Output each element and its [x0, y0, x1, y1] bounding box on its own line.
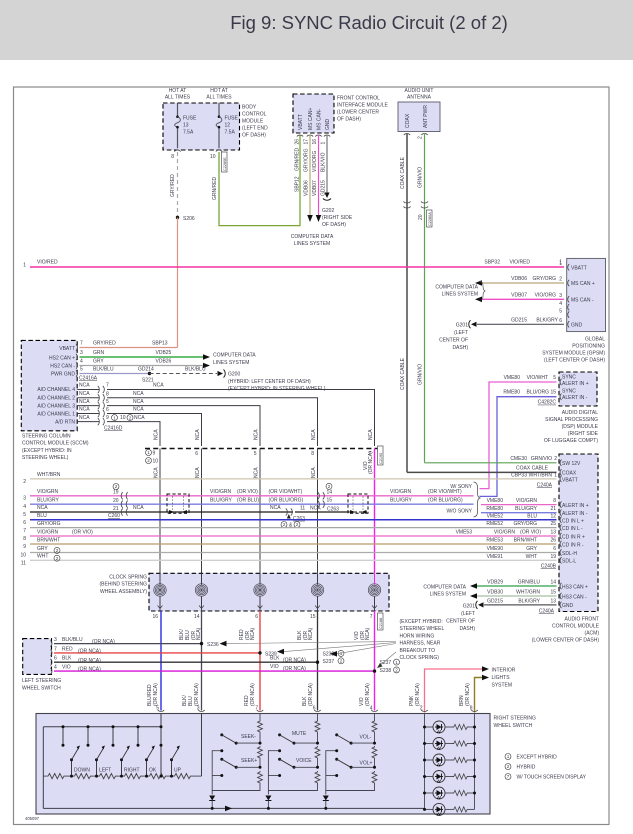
- A/D channel 3 NCA wire: [77, 399, 260, 446]
- svg-text:S238: S238: [380, 668, 392, 674]
- NCA vertical labels below connector line: [154, 467, 318, 478]
- svg-text:AUDIO DIGITAL: AUDIO DIGITAL: [562, 410, 599, 416]
- wire GD215 BLK/VIO from GND down to G202: [321, 135, 328, 196]
- svg-text:VOL-: VOL-: [360, 735, 372, 741]
- svg-text:15: 15: [327, 498, 333, 504]
- svg-text:VOL+: VOL+: [360, 761, 373, 767]
- node 5 + wire NCA black: [23, 505, 368, 522]
- svg-text:BLU/ORG: BLU/ORG: [526, 390, 549, 396]
- wire RME80 BLU/GRY to ALERT IN-: [481, 506, 557, 513]
- svg-text:RME80: RME80: [503, 390, 520, 396]
- svg-text:1: 1: [321, 142, 327, 145]
- svg-text:VBATT: VBATT: [59, 346, 75, 352]
- svg-text:VIO: VIO: [62, 665, 71, 671]
- svg-text:MS CAN-: MS CAN-: [317, 109, 323, 130]
- svg-text:NCA: NCA: [311, 429, 317, 440]
- svg-text:21: 21: [113, 506, 119, 512]
- lamp row 4: [423, 771, 476, 783]
- coil 4: [311, 584, 323, 596]
- svg-text:6: 6: [23, 520, 26, 526]
- svg-text:ANT PWR: ANT PWR: [423, 105, 429, 128]
- svg-text:3: 3: [23, 496, 26, 502]
- svg-text:VDB07: VDB07: [511, 292, 527, 298]
- svg-text:ANTENNA: ANTENNA: [407, 95, 432, 101]
- svg-text:6: 6: [559, 318, 562, 324]
- svg-text:INTERIOR: INTERIOR: [492, 668, 516, 674]
- svg-text:11: 11: [300, 506, 305, 512]
- svg-text:15: 15: [310, 614, 316, 620]
- svg-text:VIO/GRN: VIO/GRN: [494, 530, 516, 536]
- svg-text:(OR NCA): (OR NCA): [368, 451, 374, 474]
- coil 1: [154, 584, 166, 596]
- svg-text:9: 9: [153, 451, 156, 457]
- svg-text:A/D CHANNEL 4: A/D CHANNEL 4: [37, 387, 75, 393]
- lamp row 3: [423, 754, 476, 766]
- svg-text:GRN/VIO: GRN/VIO: [418, 364, 424, 385]
- svg-text:(OR NCA): (OR NCA): [78, 667, 101, 673]
- svg-text:C4282C: C4282C: [538, 400, 557, 406]
- wire GRY/RED from S206 down to SCCM VBATT row: [177, 218, 179, 346]
- svg-text:19: 19: [113, 489, 119, 495]
- A/D channel 4 NCA wire: [77, 383, 374, 447]
- svg-text:NCA: NCA: [133, 407, 144, 413]
- svg-text:COMPUTER DATA: COMPUTER DATA: [435, 285, 478, 291]
- svg-text:DASH): DASH): [459, 626, 475, 632]
- svg-text:26: 26: [550, 538, 556, 544]
- svg-text:STEERING WHEEL): STEERING WHEEL): [22, 455, 69, 461]
- A/D RTN NCA wire: [77, 415, 160, 446]
- svg-text:VIO/ORG: VIO/ORG: [312, 150, 318, 172]
- wire BLK below clock spring pin15: [297, 611, 321, 712]
- svg-text:WHEEL SWITCH: WHEEL SWITCH: [22, 686, 61, 692]
- svg-text:WHEEL SWITCH: WHEEL SWITCH: [494, 723, 533, 729]
- node 7 + wire GRY/ORG to ACM CD IN L-: [23, 521, 556, 534]
- svg-text:SBP13: SBP13: [152, 341, 168, 347]
- interior lights system label: [492, 668, 516, 689]
- svg-text:4: 4: [54, 665, 57, 671]
- switch labels: [74, 767, 182, 773]
- svg-text:7: 7: [80, 341, 83, 347]
- svg-text:SYNC: SYNC: [562, 375, 576, 381]
- svg-text:(OR NCA): (OR NCA): [308, 683, 314, 706]
- svg-text:GLOBAL: GLOBAL: [585, 337, 605, 343]
- svg-text:GRN/RED: GRN/RED: [295, 148, 301, 171]
- svg-text:NCA: NCA: [79, 391, 90, 397]
- svg-text:SDL-L: SDL-L: [562, 559, 576, 565]
- svg-text:LINES SYSTEM: LINES SYSTEM: [294, 241, 330, 247]
- svg-text:OF LUGGAGE COMPT): OF LUGGAGE COMPT): [544, 438, 599, 444]
- svg-text:SYSTEM MODULE (GPSM): SYSTEM MODULE (GPSM): [542, 351, 605, 357]
- svg-text:2: 2: [554, 456, 557, 462]
- svg-text:SBP32: SBP32: [484, 260, 500, 266]
- svg-text:13: 13: [550, 598, 556, 604]
- svg-text:HS2 CAN -: HS2 CAN -: [50, 364, 75, 370]
- resistor ladder rail: [43, 774, 201, 779]
- svg-text:VIO/RED: VIO/RED: [37, 260, 58, 266]
- svg-text:6: 6: [195, 451, 198, 457]
- svg-text:VME90: VME90: [487, 546, 504, 552]
- MUTE group: [265, 714, 320, 810]
- svg-text:FRONT CONTROL: FRONT CONTROL: [337, 96, 380, 102]
- wire RME80 BLU/ORG from DSP alert in-: [480, 390, 557, 497]
- steering wheel connector dashed line: [145, 448, 378, 450]
- svg-text:NCA): NCA): [196, 627, 202, 640]
- svg-text:NCA): NCA): [365, 627, 371, 640]
- svg-text:VDB26: VDB26: [156, 359, 172, 365]
- svg-text:15: 15: [550, 589, 556, 595]
- svg-text:NCA): NCA): [250, 627, 256, 640]
- svg-text:NCA: NCA: [254, 467, 260, 478]
- svg-text:(OR NCA): (OR NCA): [92, 639, 115, 645]
- svg-text:NCA: NCA: [133, 391, 144, 397]
- svg-text:8: 8: [553, 498, 556, 504]
- svg-text:C240A: C240A: [537, 483, 553, 489]
- LED lamp column: [423, 714, 476, 816]
- svg-text:SYSTEM: SYSTEM: [492, 683, 513, 689]
- svg-text:CME30: CME30: [510, 456, 527, 462]
- SCCM box: [21, 340, 77, 430]
- wire VDB06 GRY/ORG from MS CAN+ down to arrow: [304, 135, 313, 222]
- svg-text:6: 6: [54, 656, 57, 662]
- right steering wheel switch box: [36, 714, 536, 815]
- svg-text:BLK: BLK: [270, 655, 280, 661]
- svg-text:GD214: GD214: [138, 367, 154, 373]
- wire GRN/RED from fuse 12: down, right, up to FCIM VBATT: [219, 135, 300, 226]
- wire BLK/BLU (OR NCA) from left switch pin3 to S236: [54, 637, 202, 645]
- svg-text:LEFT: LEFT: [99, 767, 111, 773]
- splice S237 (blk): [316, 644, 396, 665]
- labels VME53 VIO/GRN row8: [456, 530, 557, 536]
- svg-text:VME80: VME80: [504, 375, 521, 381]
- cursor pad switches DOWN LEFT RIGHT OK UP: [63, 727, 172, 776]
- svg-text:AUDIO UNIT: AUDIO UNIT: [405, 88, 434, 94]
- svg-text:(OR NCA): (OR NCA): [283, 666, 306, 672]
- svg-text:BLU/GRY: BLU/GRY: [210, 497, 233, 503]
- option connector dashed box left: [167, 494, 189, 514]
- svg-text:5: 5: [559, 308, 562, 314]
- wire SBP12 GRN/RED labels: [295, 139, 301, 192]
- svg-text:G200: G200: [228, 372, 240, 378]
- svg-text:7.5A: 7.5A: [183, 130, 194, 136]
- svg-text:6: 6: [553, 546, 556, 552]
- svg-text:AUDIO FRONT: AUDIO FRONT: [565, 617, 599, 623]
- svg-text:NCA: NCA: [368, 429, 374, 440]
- svg-text:14: 14: [550, 579, 556, 585]
- node 10 + wire GRY to ACM SDL-H: [20, 546, 556, 559]
- splice S239: [258, 643, 396, 658]
- svg-text:DOWN: DOWN: [74, 767, 90, 773]
- svg-text:STEERING WHEEL: STEERING WHEEL: [400, 626, 445, 632]
- coil 2: [195, 584, 207, 596]
- svg-text:SEEK+: SEEK+: [241, 758, 257, 764]
- svg-text:ALERT IN -: ALERT IN -: [562, 511, 588, 517]
- wire VME80 VIO/WHT from DSP alert in+: [480, 375, 557, 489]
- svg-text:VME52: VME52: [487, 513, 504, 519]
- svg-text:GRY/ORG: GRY/ORG: [37, 521, 61, 527]
- wire VIO below clock spring pin7: [354, 611, 383, 712]
- brace merge for sony option: [446, 482, 480, 517]
- svg-text:VIO/ORG: VIO/ORG: [535, 292, 557, 298]
- wire CBP33 WHT/BRN row2 end labels: [511, 473, 557, 489]
- svg-text:BRN/WHT: BRN/WHT: [514, 538, 537, 544]
- svg-text:RME53: RME53: [486, 538, 503, 544]
- svg-text:S237: S237: [323, 659, 335, 665]
- SCCM caption: [22, 434, 89, 462]
- svg-text:GRY: GRY: [526, 546, 537, 552]
- body control module box: [163, 103, 268, 150]
- svg-text:RED: RED: [62, 646, 73, 652]
- svg-text:(OR NCA): (OR NCA): [194, 683, 200, 706]
- svg-text:20: 20: [418, 214, 424, 220]
- labels VME90 GRY row10: [487, 546, 557, 552]
- svg-text:10: 10: [153, 459, 159, 465]
- svg-text:EXCEPT HYBRID: EXCEPT HYBRID: [517, 755, 558, 761]
- svg-text:BLK/BLU: BLK/BLU: [62, 637, 83, 643]
- svg-text:LINES SYSTEM: LINES SYSTEM: [213, 360, 249, 366]
- wire GRY/RED dashed from fuse 13 to S206: [177, 152, 179, 218]
- svg-text:GRN/BLU: GRN/BLU: [518, 579, 541, 585]
- svg-text:NCA: NCA: [153, 383, 164, 389]
- seek resistor chain: [212, 714, 262, 795]
- wire VIO (OR NCA) vertical to clock spring: [374, 449, 376, 574]
- harness callout caption: [400, 619, 445, 661]
- computer data lines label (ACM): [423, 585, 466, 598]
- svg-text:BLU/GRY: BLU/GRY: [390, 497, 413, 503]
- svg-text:Fig 9: SYNC Radio Circuit (2 o: Fig 9: SYNC Radio Circuit (2 of 2): [230, 12, 508, 33]
- svg-text:HARNESS, NEAR: HARNESS, NEAR: [400, 641, 441, 647]
- hot at all times label 2: [206, 88, 232, 101]
- svg-text:1: 1: [559, 261, 562, 267]
- svg-text:(OR VIO): (OR VIO): [520, 530, 541, 536]
- seek common bus: [212, 751, 222, 791]
- svg-text:(OR NCA): (OR NCA): [283, 657, 306, 663]
- wire GD215 BLK/GRY to ACM GND with ground G201: [476, 598, 557, 614]
- coil stems: [160, 573, 375, 611]
- svg-text:(OR BLU/ORG): (OR BLU/ORG): [428, 497, 463, 503]
- svg-text:12: 12: [225, 123, 231, 129]
- svg-text:2: 2: [559, 277, 562, 283]
- svg-text:GRN/VIO: GRN/VIO: [418, 167, 424, 188]
- svg-text:BLU: BLU: [527, 513, 537, 519]
- svg-text:(RIGHT SIDE: (RIGHT SIDE: [568, 431, 599, 437]
- svg-text:A/D CHANNEL 3: A/D CHANNEL 3: [37, 404, 75, 410]
- svg-text:VME53: VME53: [456, 530, 473, 536]
- svg-text:GND: GND: [562, 603, 574, 609]
- lamp row 6: [423, 803, 475, 815]
- svg-text:CONTROL MODULE: CONTROL MODULE: [552, 624, 600, 630]
- VOL group: [323, 714, 377, 810]
- svg-text:(LEFT END: (LEFT END: [242, 126, 268, 132]
- svg-text:NCA: NCA: [37, 505, 48, 511]
- svg-text:(EXCEPT HYBRID:: (EXCEPT HYBRID:: [400, 619, 443, 625]
- svg-text:INTERFACE MODULE: INTERFACE MODULE: [337, 103, 389, 109]
- svg-text:WHT/BRN: WHT/BRN: [529, 473, 553, 479]
- svg-text:NCA: NCA: [79, 415, 90, 421]
- labels RME53 BRN/WHT row9: [486, 538, 556, 544]
- svg-text:C2188: C2188: [379, 618, 383, 629]
- svg-text:WHT: WHT: [526, 554, 537, 560]
- svg-text:CD IN R +: CD IN R +: [562, 534, 585, 540]
- svg-text:HS3 CAN -: HS3 CAN -: [562, 594, 587, 600]
- svg-text:BRN/WHT: BRN/WHT: [37, 537, 60, 543]
- svg-text:C2190: C2190: [379, 453, 383, 464]
- svg-text:COAX: COAX: [405, 113, 411, 128]
- svg-text:NCA: NCA: [311, 467, 317, 478]
- svg-text:5: 5: [106, 399, 109, 405]
- svg-text:MS CAN +: MS CAN +: [571, 281, 595, 287]
- wire VDB30 WHT/GRN to HS3 CAN-: [470, 589, 557, 598]
- top rail: [43, 726, 161, 728]
- wire GRY/RED SBP13 from SCCM VBATT to S206 riser: [80, 341, 178, 348]
- svg-text:HOT AT: HOT AT: [210, 88, 228, 94]
- wire verticals from connector down to clock spring: [160, 449, 318, 574]
- svg-text:GRY/ORG: GRY/ORG: [513, 521, 537, 527]
- wire PNK (OR NCA) to interior lights: [409, 666, 489, 712]
- svg-text:BLK: BLK: [62, 656, 72, 662]
- labels RME52 GRY/ORG row7: [486, 521, 556, 527]
- lamp row 2: [423, 738, 476, 750]
- svg-text:COMPUTER DATA: COMPUTER DATA: [291, 234, 334, 240]
- blue pin5 vertical inside box: [160, 714, 162, 777]
- wire GRY VDB26 to computer data arrow: [80, 359, 211, 369]
- labels VME91 WHT row11: [487, 554, 557, 570]
- svg-text:(BEHIND STEERING: (BEHIND STEERING: [99, 582, 147, 588]
- ground G200: [218, 370, 326, 393]
- svg-text:C2280E: C2280E: [223, 157, 227, 171]
- svg-text:VDB25: VDB25: [156, 350, 172, 356]
- svg-text:MS CAN -: MS CAN -: [571, 297, 594, 303]
- svg-text:OF DASH): OF DASH): [242, 133, 266, 139]
- svg-text:4: 4: [23, 504, 26, 510]
- lamp row 5: [423, 787, 476, 799]
- svg-text:(OR BLU/ORG): (OR BLU/ORG): [269, 497, 304, 503]
- svg-text:WHEEL ASSEMBLY): WHEEL ASSEMBLY): [100, 589, 147, 595]
- svg-text:NCA: NCA: [154, 429, 160, 440]
- internal rails: [43, 714, 424, 809]
- svg-text:HS3 CAN +: HS3 CAN +: [562, 584, 588, 590]
- svg-text:14: 14: [327, 489, 333, 495]
- svg-text:VBATT: VBATT: [562, 477, 578, 483]
- seek diode: [209, 796, 215, 801]
- svg-text:(OR VIO/WHT): (OR VIO/WHT): [428, 489, 462, 495]
- svg-text:ALL TIMES: ALL TIMES: [206, 95, 232, 101]
- computer data lines system label (under FCIM): [291, 234, 334, 247]
- NCA vertical labels above connector line: [154, 429, 375, 440]
- svg-text:ALERT IN +: ALERT IN +: [562, 503, 589, 509]
- pin3 vertical inside box: [201, 714, 203, 777]
- svg-text:HS2 CAN +: HS2 CAN +: [49, 356, 75, 362]
- svg-text:1: 1: [554, 473, 557, 479]
- svg-text:LEFT STEERING: LEFT STEERING: [22, 678, 61, 684]
- svg-text:SW 12V: SW 12V: [562, 461, 581, 467]
- svg-text:SDL-H: SDL-H: [562, 551, 577, 557]
- svg-text:BODY: BODY: [242, 105, 257, 111]
- svg-text:NCA: NCA: [195, 429, 201, 440]
- svg-text:STEERING COLUMN: STEERING COLUMN: [22, 434, 71, 440]
- svg-text:5: 5: [23, 512, 26, 518]
- svg-text:3: 3: [559, 293, 562, 299]
- svg-text:VME91: VME91: [487, 554, 504, 560]
- svg-text:G201: G201: [456, 323, 468, 329]
- svg-text:(EXCEPT HYBRID: IN: (EXCEPT HYBRID: IN: [22, 448, 72, 454]
- wire GRN VDB25 to computer data arrow: [80, 350, 211, 360]
- svg-text:(OR NCA): (OR NCA): [250, 683, 256, 706]
- wire GRN/VIO vertical (ant pwr): [418, 134, 433, 463]
- svg-text:LIGHTS: LIGHTS: [492, 675, 511, 681]
- svg-text:NCA: NCA: [195, 467, 201, 478]
- svg-text:(LEFT: (LEFT: [454, 330, 468, 336]
- svg-text:OF DASH): OF DASH): [337, 117, 361, 123]
- svg-text:(ACM): (ACM): [585, 631, 600, 637]
- svg-text:VBATT: VBATT: [298, 114, 304, 130]
- svg-text:(OR VIO/WHT): (OR VIO/WHT): [269, 489, 303, 495]
- svg-text:WHT: WHT: [37, 554, 48, 560]
- svg-text:(LEFT: (LEFT: [461, 611, 475, 617]
- svg-text:A/D CHANNEL 2: A/D CHANNEL 2: [37, 396, 75, 402]
- wire VDB07 VIO/ORG from MS CAN- down to arrow: [312, 135, 321, 222]
- svg-text:(LEFT CENTER OF DASH): (LEFT CENTER OF DASH): [544, 358, 605, 364]
- svg-text:BLK/BLU: BLK/BLU: [93, 367, 114, 373]
- svg-text:(OR VIO): (OR VIO): [237, 489, 258, 495]
- connector pin labels below dashed line: [146, 446, 384, 474]
- svg-text:7: 7: [106, 383, 109, 389]
- svg-text:NCA: NCA: [310, 506, 321, 512]
- svg-text:25: 25: [550, 521, 556, 527]
- wire BRN (OR NCA) to interior lights: [459, 675, 489, 713]
- svg-text:VIO: VIO: [270, 664, 279, 670]
- svg-text:G202: G202: [322, 208, 334, 214]
- svg-text:SBP12: SBP12: [295, 176, 301, 192]
- svg-text:S236: S236: [207, 642, 219, 648]
- svg-text:19: 19: [550, 554, 556, 560]
- clock spring box: [149, 573, 389, 611]
- svg-text:W/ TOUCH SCREEN DISPLAY: W/ TOUCH SCREEN DISPLAY: [517, 775, 587, 781]
- svg-text:A/D CHANNEL 1: A/D CHANNEL 1: [37, 412, 75, 418]
- svg-text:HOT AT: HOT AT: [169, 88, 187, 94]
- svg-text:NCA: NCA: [79, 399, 90, 405]
- global positioning system module GPSM box: [559, 258, 605, 331]
- clock spring pin numbers below box: [152, 614, 372, 620]
- svg-text:CENTER OF: CENTER OF: [446, 618, 475, 624]
- svg-text:11: 11: [21, 561, 26, 567]
- SEEK group: [209, 714, 262, 810]
- ground G201 (left center of dash): [439, 320, 476, 351]
- lamp row 1: [423, 721, 476, 733]
- led rails: [424, 714, 426, 809]
- svg-text:CD IN L -: CD IN L -: [562, 526, 583, 532]
- svg-text:(OR NCA): (OR NCA): [465, 683, 471, 706]
- svg-text:BREAKOUT TO: BREAKOUT TO: [400, 648, 436, 654]
- svg-text:COAX CABLE: COAX CABLE: [400, 357, 406, 390]
- svg-text:GRN/RED: GRN/RED: [212, 177, 218, 200]
- svg-text:COAX: COAX: [562, 471, 577, 477]
- svg-text:S206: S206: [183, 216, 195, 222]
- title bar: [0, 0, 633, 60]
- svg-text:(OR NCA): (OR NCA): [78, 658, 101, 664]
- svg-text:8: 8: [23, 536, 26, 542]
- node 2 + wire WHT/BRN to ACM VBATT: [23, 472, 556, 485]
- wire COAX CABLE to COAX pin: [407, 466, 557, 473]
- svg-text:MS CAN+: MS CAN+: [308, 108, 314, 130]
- svg-text:2: 2: [23, 479, 26, 485]
- svg-text:VDB30: VDB30: [487, 589, 503, 595]
- left steering wheel switch box: [22, 639, 61, 692]
- wire 1 VIO/RED long horizontal: [30, 260, 564, 268]
- wire BLK/BLU below clock spring pin14: [179, 611, 205, 712]
- svg-text:MODULE: MODULE: [242, 119, 264, 125]
- svg-text:BLU/GRY: BLU/GRY: [37, 497, 60, 503]
- svg-text:16: 16: [312, 139, 318, 145]
